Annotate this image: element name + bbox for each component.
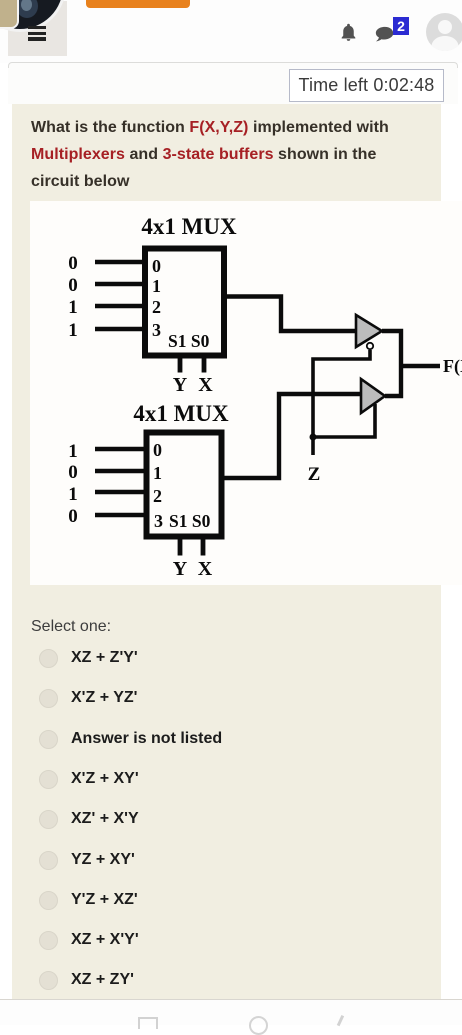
card top border: [8, 62, 458, 71]
wire: top MUX output to buffer U3 input: [224, 297, 356, 332]
svg-text:Z: Z: [308, 464, 321, 485]
wire: bottom MUX input 1: [95, 469, 146, 473]
svg-text:3: 3: [154, 511, 163, 531]
circuit SVG: [30, 201, 462, 585]
svg-text:1: 1: [152, 276, 161, 296]
wire: bottom MUX select stub S1 (Y): [178, 539, 183, 556]
wire: top MUX select stub S1 (Y): [178, 356, 183, 373]
svg-text:4x1 MUX: 4x1 MUX: [141, 214, 237, 239]
svg-text:1: 1: [68, 484, 78, 505]
svg-text:0: 0: [68, 253, 78, 274]
wire: top MUX input 3: [95, 327, 143, 331]
svg-text:2: 2: [153, 486, 162, 506]
wire: Z net junction right and up to U4 enable: [313, 404, 375, 437]
svg-text:S1 S0: S1 S0: [168, 331, 210, 351]
options: [39, 649, 58, 668]
blue badge 2: [393, 17, 409, 35]
hamburger icon: [28, 26, 46, 29]
white circuit panel: [30, 201, 462, 585]
junction: Z net: [310, 434, 317, 441]
wire: bottom MUX input 0: [95, 447, 146, 451]
svg-text:0: 0: [152, 256, 161, 276]
svg-text:1: 1: [68, 297, 78, 318]
tri-state buffer U4 (bottom, active-high enable): [361, 379, 385, 413]
wire: top MUX input 0: [95, 260, 143, 264]
svg-text:Y: Y: [173, 558, 188, 580]
wire: F output stub: [401, 364, 440, 368]
wire: buffer outputs joined to node F: [382, 331, 401, 396]
wire: bottom MUX input 3: [95, 513, 146, 517]
tri-state buffer U3 (top, active-low enable): [356, 315, 382, 347]
svg-text:F(X: F(X: [443, 356, 462, 377]
svg-text:1: 1: [68, 320, 78, 341]
svg-text:1: 1: [68, 441, 78, 462]
svg-text:2: 2: [152, 297, 161, 317]
tan corner patch: [0, 0, 19, 29]
multiplexer U1 (top 4x1 MUX) body: [145, 249, 224, 356]
svg-text:X: X: [198, 374, 213, 396]
wire: bottom MUX select stub S0 (X): [201, 539, 206, 556]
wire: bottom MUX input 2: [95, 490, 146, 494]
svg-text:0: 0: [68, 506, 78, 527]
wire: top MUX input 1: [95, 282, 143, 286]
bottom white strip: [0, 999, 462, 1025]
bell icon: [338, 22, 359, 43]
wire: Z net from U3 enable bubble down and left to junction, down to Z stub: [313, 350, 370, 455]
multiplexer U2 (bottom 4x1 MUX) body: [147, 433, 222, 537]
wire: bottom MUX output to buffer U4 input: [224, 394, 361, 478]
svg-text:3: 3: [152, 320, 161, 340]
faint bottom cut-off icons: [138, 1017, 158, 1029]
orange bar: [86, 0, 190, 8]
wire: top MUX select stub S0 (X): [202, 356, 207, 373]
svg-text:0: 0: [68, 462, 78, 483]
svg-text:S1 S0: S1 S0: [169, 511, 211, 531]
svg-text:0: 0: [68, 275, 78, 296]
Select one:: [31, 618, 111, 636]
svg-text:0: 0: [153, 440, 162, 460]
wire: top MUX input 2: [95, 304, 143, 308]
timer box: [289, 69, 444, 102]
chat icon: [373, 25, 397, 47]
question text: [31, 114, 441, 195]
avatar placeholder: [426, 13, 462, 51]
svg-text:X: X: [198, 558, 213, 580]
svg-text:Y: Y: [173, 374, 188, 396]
gray menu block: [8, 1, 67, 56]
svg-text:1: 1: [153, 463, 162, 483]
svg-text:4x1 MUX: 4x1 MUX: [133, 401, 229, 426]
profile photo circle: [0, 0, 66, 32]
enable bubble of buffer U3: [367, 343, 373, 349]
